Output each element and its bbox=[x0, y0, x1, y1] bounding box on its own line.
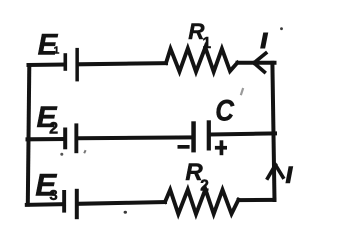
label E1 bbox=[38, 28, 60, 61]
top wire: left corner to E1 bbox=[29, 63, 65, 68]
svg-text:C: C bbox=[215, 94, 235, 127]
battery E1 bbox=[64, 48, 79, 82]
wire: C to right vertical bbox=[211, 133, 276, 134]
wire: R1 to top-right corner bbox=[238, 61, 275, 65]
label E2 bbox=[37, 101, 59, 137]
label E3 bbox=[35, 166, 57, 203]
wire: E3 to R2 bbox=[79, 202, 166, 204]
polarity label − (capacitor negative) bbox=[178, 145, 190, 149]
svg-text:I: I bbox=[286, 162, 293, 187]
bottom wire: left vertical to E3 bbox=[27, 202, 64, 207]
svg-text:1: 1 bbox=[54, 45, 60, 57]
resistor R2 bbox=[165, 189, 239, 214]
wire: E2 to capacitor C bbox=[78, 135, 193, 140]
label R2 bbox=[185, 159, 208, 195]
resistor R1 bbox=[166, 47, 238, 71]
middle wire: left vertical to E2 bbox=[28, 137, 65, 141]
polarity label + (capacitor positive) bbox=[215, 140, 227, 155]
right vertical wire bbox=[272, 63, 274, 200]
capacitor C bbox=[191, 120, 211, 152]
svg-text:3: 3 bbox=[49, 187, 57, 204]
current arrow I (top, pointing left) bbox=[254, 53, 266, 72]
label R1 bbox=[188, 19, 211, 52]
svg-text:2: 2 bbox=[200, 178, 209, 195]
battery E2 bbox=[63, 123, 78, 153]
wire: R2 to bottom-right corner bbox=[239, 198, 275, 202]
svg-text:2: 2 bbox=[49, 119, 58, 137]
left vertical wire bbox=[28, 65, 30, 205]
current arrow I (right, pointing up) bbox=[268, 165, 283, 178]
wire: E1 to R1 bbox=[79, 63, 167, 64]
battery E3 bbox=[62, 189, 79, 219]
svg-text:1: 1 bbox=[202, 35, 211, 52]
